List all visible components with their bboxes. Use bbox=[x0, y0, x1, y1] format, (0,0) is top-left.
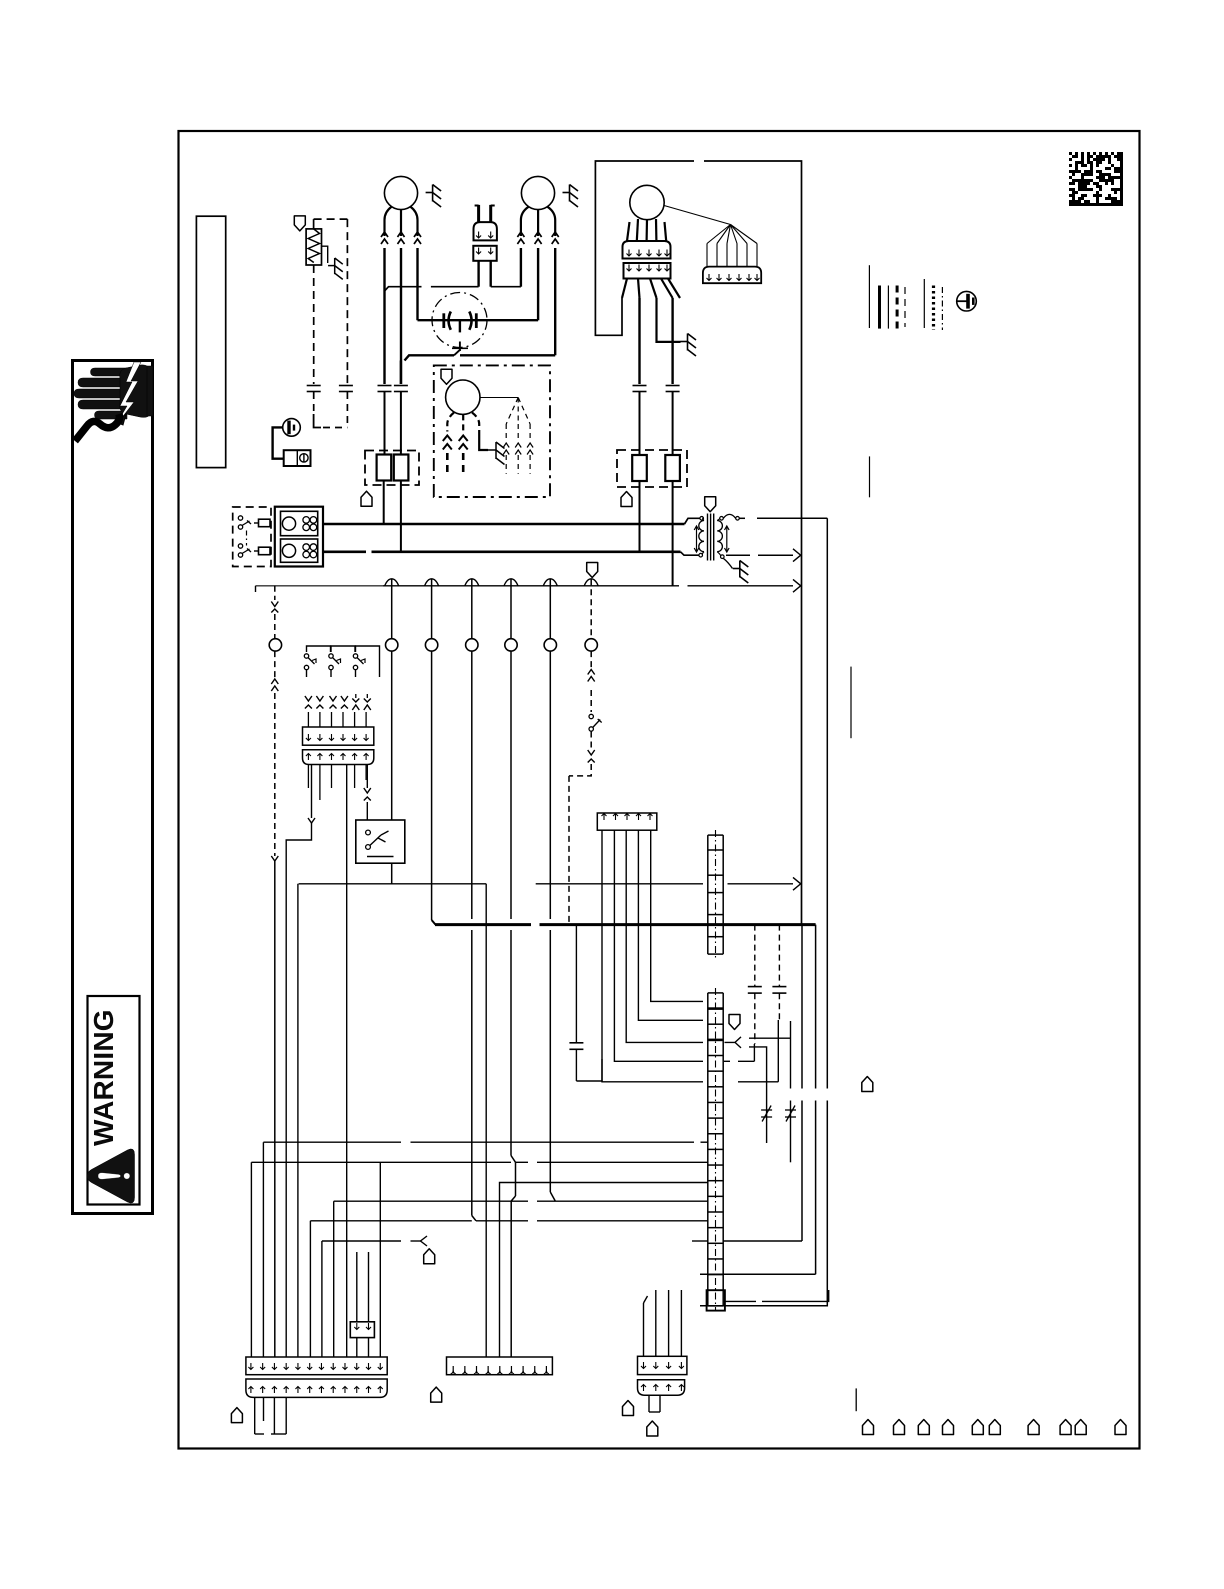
connector 3a bbox=[623, 241, 671, 259]
cap dropper x=576.4 bbox=[575, 925, 577, 1042]
inducer long leads bbox=[638, 298, 640, 384]
break bars on dashed pair bbox=[307, 385, 321, 387]
flag under chevron bbox=[424, 1249, 435, 1264]
flag at ladder bbox=[729, 1015, 740, 1030]
wire pin5 long down bbox=[346, 765, 348, 1358]
wire circle6 down bbox=[510, 651, 512, 919]
bus right portion bbox=[688, 585, 794, 587]
flags below connector C bbox=[623, 1401, 634, 1416]
rollout limit switches group bbox=[307, 646, 331, 652]
6-pin connector strip lower bbox=[303, 750, 374, 765]
transformer terminals bbox=[700, 517, 704, 521]
bottom connector A upper bbox=[246, 1357, 387, 1375]
wire y=355.3 from motor2 lead3 bbox=[405, 355, 455, 360]
door switch dashed box bbox=[233, 507, 271, 567]
fuse F4 bbox=[665, 455, 680, 481]
dashed wire below leftmost circle bbox=[274, 651, 276, 680]
blank label box bbox=[196, 216, 225, 467]
warning inner label box bbox=[88, 996, 140, 1205]
motor 2 (inducer top) bbox=[521, 176, 554, 209]
motor 1 (circulator blower) bbox=[384, 176, 417, 209]
flag 1 at heater resistor bbox=[294, 216, 305, 231]
inducer motor circle bbox=[446, 380, 480, 414]
igniter lower stem bbox=[459, 342, 461, 352]
bus left tail tick bbox=[255, 586, 257, 592]
hand-shock icon bbox=[74, 362, 153, 441]
ladder bottom cell bbox=[707, 1290, 725, 1310]
legend line samples bbox=[868, 265, 870, 328]
xfmr primary leads bbox=[685, 518, 700, 524]
flag right of verticals bbox=[862, 1077, 873, 1092]
mating arrow to relay bbox=[366, 765, 368, 789]
vertical right from xfmr bbox=[826, 517, 829, 519]
plug wire to receptacle box bbox=[273, 427, 284, 458]
data-matrix barcode bbox=[1069, 152, 1123, 206]
connector A tail loop bbox=[254, 1397, 256, 1434]
L2 wire bbox=[323, 550, 366, 553]
legend plug symbol bbox=[957, 291, 977, 311]
dashed box around resistor bbox=[314, 218, 348, 220]
transformer arrows bbox=[696, 527, 698, 551]
mating arrows under switches bbox=[305, 696, 312, 701]
ladder stub y1241 bbox=[692, 1240, 708, 1242]
fuse4 wire down bbox=[672, 481, 674, 586]
fuse box 2 dashed bbox=[617, 450, 687, 487]
long runs to ladder bbox=[262, 1141, 264, 1143]
bottom flags row bbox=[863, 1420, 874, 1435]
L1 wire from terminal block to transformer bbox=[323, 523, 685, 526]
chevron into ladder bbox=[725, 1037, 742, 1048]
isolated line right bbox=[850, 667, 852, 739]
wire circle3 to relay bbox=[391, 651, 393, 820]
dashed wire from hump7 bbox=[590, 651, 592, 670]
left drop of y884 bbox=[297, 884, 299, 1357]
wire: junction row y=286.7 bbox=[385, 287, 422, 291]
flag in inducer box bbox=[441, 369, 452, 384]
pressure switch relay box bbox=[356, 820, 405, 863]
wires from 5-pin connector to ladder bbox=[651, 830, 703, 1001]
inducer leader line bbox=[480, 397, 518, 399]
wires right of chevron bbox=[749, 1037, 791, 1039]
6-pin connector strip upper bbox=[303, 727, 374, 745]
main thick bus y=924.6 bbox=[431, 651, 433, 920]
wires to small 2pin box bbox=[356, 1252, 358, 1322]
igniter plug connector bbox=[477, 205, 480, 222]
dashed caps right pair bbox=[754, 925, 756, 986]
vertical to ladder entry 1274 bbox=[815, 925, 817, 1089]
resistor HTR with box bbox=[306, 229, 321, 265]
svg-text:WARNING: WARNING bbox=[88, 1009, 119, 1146]
wire y=883.8 bbox=[299, 883, 487, 885]
dashed box bottom corner bbox=[314, 414, 321, 428]
connection circles row bbox=[269, 639, 281, 651]
xfmr secondary top lead with loop bbox=[723, 514, 735, 518]
connector 3b bbox=[624, 263, 671, 279]
vertical x802 to ladder entry 1241 bbox=[801, 925, 803, 1089]
drops from humps to circles bbox=[391, 579, 393, 638]
verticals with break slashes bbox=[761, 1109, 772, 1111]
motor 3 (ECM) bbox=[630, 185, 664, 219]
resistor tap + ground bbox=[322, 246, 328, 263]
ground stub mid bbox=[657, 298, 681, 342]
spark igniter in dash-dot circle bbox=[432, 293, 487, 348]
elbow down to bottom connector bbox=[485, 884, 487, 1357]
wire circle5 down bbox=[471, 651, 473, 919]
connector C wires above bbox=[643, 1303, 645, 1356]
flag above dashed hump bbox=[587, 563, 598, 578]
bottom connector A lower bbox=[246, 1379, 387, 1397]
ground at motor 1 bbox=[432, 185, 434, 202]
connector C tails bbox=[648, 1395, 650, 1412]
schematic border frame bbox=[179, 131, 1140, 1449]
power plug symbol circle bbox=[283, 419, 301, 437]
flag below fuse box 1 bbox=[361, 491, 372, 506]
fuse2 wire down bbox=[400, 481, 402, 548]
inducer dash-dot box bbox=[434, 365, 550, 497]
bottom connector C upper bbox=[638, 1356, 687, 1374]
door switch spades bbox=[259, 519, 271, 527]
xfmr secondary bottom to ground bbox=[724, 559, 733, 569]
flag left of connector A bbox=[231, 1408, 242, 1423]
legend single line bbox=[869, 456, 871, 497]
inducer ground bbox=[479, 432, 488, 451]
24v bus y=585.8 bbox=[256, 585, 384, 587]
fuse3 wire down bbox=[639, 481, 641, 552]
ladder connector lower bbox=[708, 992, 723, 994]
wire from ladder bottom to right bbox=[725, 1300, 756, 1302]
fuse F3 bbox=[632, 455, 647, 481]
connector 3c bbox=[703, 267, 761, 284]
receptacle box bbox=[284, 450, 311, 466]
stub wires below strip bbox=[307, 765, 309, 789]
bottom connector C lower bbox=[638, 1380, 685, 1396]
warning strip outer box bbox=[73, 361, 153, 1214]
igniter plug leads bbox=[477, 261, 479, 287]
tick line bottom right bbox=[855, 1388, 857, 1411]
wire from pin2 to lower bundle bbox=[311, 765, 313, 819]
motor1 leads bbox=[385, 207, 392, 236]
wires below connector 3b bbox=[622, 279, 627, 299]
small 2-pin box bbox=[350, 1322, 374, 1338]
connector 3c fan bbox=[707, 225, 731, 244]
bottom connector B bbox=[447, 1357, 553, 1375]
relay to y884 bbox=[391, 863, 393, 884]
ladder connector upper bbox=[708, 834, 723, 836]
5-pin connector mid bbox=[597, 813, 657, 830]
leader line bbox=[664, 206, 730, 225]
wire circle7 down bbox=[549, 651, 551, 919]
dashed drop leftmost bbox=[274, 586, 276, 600]
fuse1 wire to L1 bus bbox=[383, 481, 385, 520]
inducer motor leads bbox=[447, 413, 454, 432]
motor3 lead fan into connector bbox=[627, 222, 630, 241]
big blower compartment box bbox=[595, 161, 694, 335]
fuse box 1 dashed bbox=[365, 451, 419, 486]
fuse F2 bbox=[394, 455, 409, 481]
transformer flag bbox=[705, 497, 716, 512]
motor2 leads bbox=[521, 207, 529, 236]
flag below connector B bbox=[431, 1387, 442, 1402]
door switch contacts bbox=[238, 516, 242, 520]
junction terminal block bbox=[275, 507, 323, 567]
wire x380 down bbox=[379, 1162, 381, 1357]
resistor dashed wire down-left bbox=[313, 265, 315, 384]
flag below fuse box 2 bbox=[621, 492, 632, 507]
transformer bbox=[707, 514, 709, 561]
fuse F1 bbox=[377, 455, 392, 481]
warning triangle icon bbox=[87, 1149, 135, 1203]
ground at motor 2 bbox=[569, 185, 571, 202]
inducer fan legs bbox=[506, 398, 518, 425]
xfmr secondary bottom wire right bbox=[726, 554, 750, 556]
